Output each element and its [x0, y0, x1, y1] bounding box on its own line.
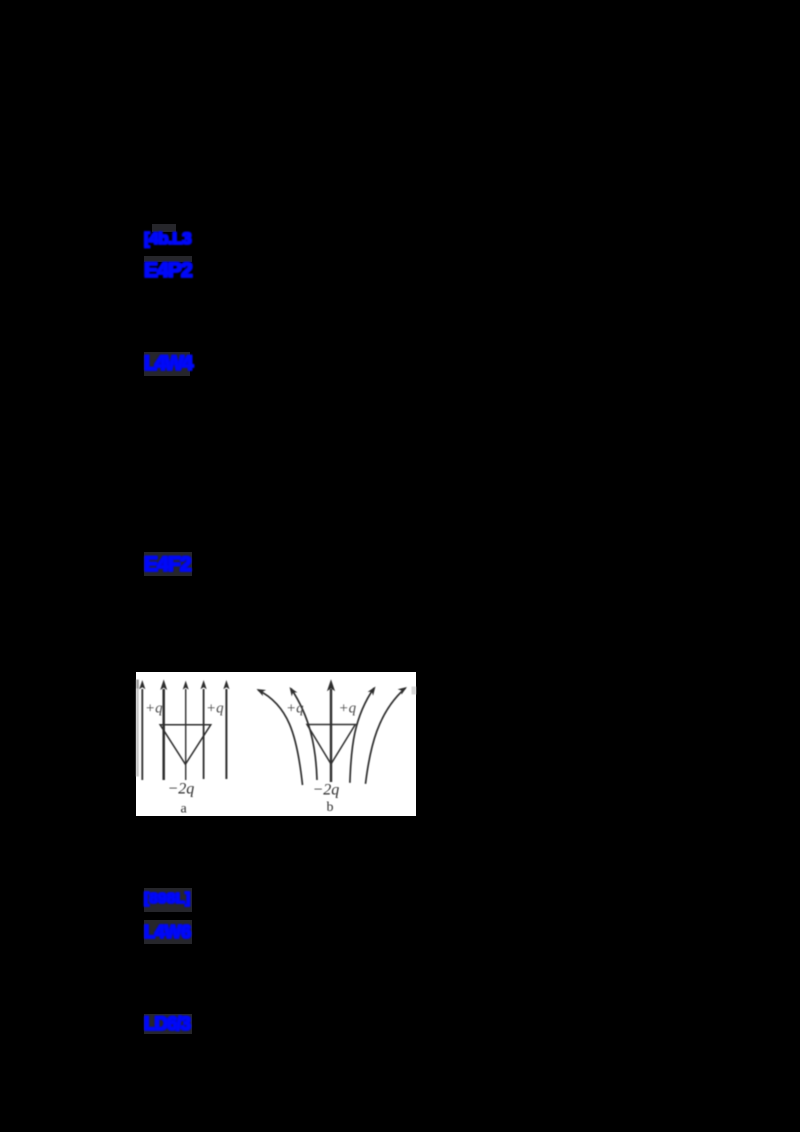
svg-text:b: b: [327, 800, 334, 815]
link blob 3: [144, 355, 192, 373]
labels: [145, 701, 357, 717]
subfig a triangle: [160, 725, 211, 765]
grey bar: [136, 680, 139, 777]
svg-text:−2q: −2q: [313, 782, 340, 799]
grey band link 3: [144, 352, 190, 376]
link blob 6: [144, 924, 192, 940]
svg-text:−2q: −2q: [168, 781, 195, 798]
link blob 4: [144, 556, 192, 574]
link blob 1: [144, 231, 192, 247]
subfig b central field line: [330, 689, 332, 782]
link blob 7: [144, 1017, 192, 1033]
subfig b curve arrowheads: [257, 687, 408, 697]
svg-text:+q: +q: [206, 701, 224, 717]
link blob 5: [144, 891, 192, 906]
grey band link 5: [144, 888, 192, 912]
link blob 2: [144, 262, 192, 280]
grey band link 7: [144, 1014, 192, 1034]
svg-text:+q: +q: [286, 701, 304, 717]
grey cap above link 1: [152, 224, 176, 232]
subfig a arrowheads: [139, 679, 229, 690]
grey band link 6: [144, 920, 192, 944]
small grey nub right edge: [412, 687, 417, 695]
grey cap above link 2: [144, 256, 192, 262]
svg-text:a: a: [181, 802, 188, 817]
svg-text:+q: +q: [339, 701, 357, 717]
subfig b curved field lines: [258, 690, 303, 785]
subfig a field lines: [141, 689, 143, 780]
grey band link 4: [144, 552, 192, 576]
svg-text:+q: +q: [145, 701, 163, 717]
subfig b triangle: [307, 725, 355, 765]
figure: electric field lines through triangle of charges: [136, 672, 416, 816]
